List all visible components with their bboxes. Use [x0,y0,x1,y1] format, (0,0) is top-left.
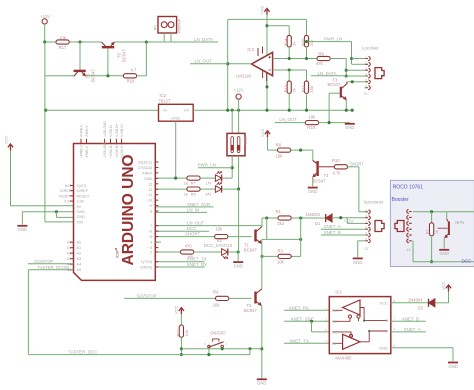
node junction (289.2,110.2) [288,109,291,112]
wire riser x=351.5 [351,42,353,65]
svg-text:BC547: BC547 [244,247,257,252]
node junction (227.7,63.8) [226,62,229,65]
ground GND (R16) [345,123,355,125]
svg-text:A4: A4 [77,263,82,267]
svg-text:XN: XN [205,192,211,197]
svg-text:VIN: VIN [77,220,84,224]
wire rail2 y=355.8 [28,354,250,356]
svg-text:A3: A3 [77,257,82,261]
svg-text:1k: 1k [435,230,439,234]
svg-text:2k: 2k [292,88,297,92]
svg-text:27(SDA): 27(SDA) [138,166,153,170]
svg-text:GND: GND [234,264,243,269]
wire GND row 2 [56,216,73,218]
svg-text:ON/OFF: ON/OFF [210,330,226,335]
svg-text:3: 3 [204,342,206,346]
wire row y=76 left of T5 [45,75,74,77]
node junction (107.9,75.8) [106,74,109,77]
svg-text:A2: A2 [77,252,82,256]
wire booster top rail [413,211,474,213]
resistor R18 4.7 [123,74,136,78]
wire LM311 output to pull-up [228,63,252,65]
node junction (352.2,81.8) [351,80,354,83]
wire riser R1-left to emitter row [266,218,268,239]
svg-text:+USB-D+: +USB-D+ [115,123,119,137]
ground GND (MAX485) [448,362,458,364]
wire XNET_SDE to RE [284,320,329,322]
wire +12V rail down to VIN [44,42,46,222]
svg-text:R18: R18 [127,79,135,84]
svg-text:5: 5 [394,344,396,348]
wire R10 to J2 pin1 riser [348,166,359,168]
wire T3 base [329,92,339,94]
wire T1 emitter row [262,238,301,240]
wire J1 pin1 [352,58,366,60]
svg-text:A1: A1 [77,246,82,250]
svg-text:IC1: IC1 [335,289,342,294]
wire J2 pin1 [359,211,366,213]
svg-text:~10: ~10 [146,199,152,203]
svg-text:~6: ~6 [148,230,152,234]
transistor T4 BC547 [313,161,317,164]
svg-text:XNET_RX: XNET_RX [187,262,207,267]
wire XNET_SVR [155,206,213,208]
MAX485 driver bubble [349,334,352,337]
resistor R12 10k [179,325,183,337]
svg-text:+PWR-V: +PWR-V [80,124,84,138]
wire J3 pin risers [412,241,414,262]
svg-text:BC547: BC547 [244,308,257,313]
svg-text:R12: R12 [175,328,180,336]
node junction MAX485 internal B [363,320,365,322]
svg-text:+USB-D+: +USB-D+ [115,144,119,158]
svg-text:R3: R3 [278,248,284,253]
svg-text:XNET_A: XNET_A [324,224,341,229]
svg-text:2: 2 [325,317,327,321]
node junction (175.7,178.1) [174,177,177,180]
svg-text:R5: R5 [191,192,197,197]
svg-text:3: 3 [325,328,327,332]
svg-text:SW1: SW1 [243,136,248,145]
wire J1 pin5 [352,81,365,83]
svg-text:10k: 10k [276,154,284,159]
MAX485 internal connections [333,308,388,344]
wire LED row 2 y=189.1 [155,188,187,190]
wire LN_OUT pin7 [155,225,262,227]
wire LED to GND riser [228,251,238,253]
svg-text:R17: R17 [59,45,67,50]
supply +12V (mid) [236,94,241,99]
resistor R2 10k [215,235,228,239]
svg-text:A: A [385,329,388,334]
wire LED2 to pole [222,188,239,190]
node junction (250,348.8) [248,347,251,350]
svg-text:XNET_B: XNET_B [324,230,341,235]
svg-text:J1: J1 [364,92,368,96]
svg-text:VCC: VCC [441,281,446,290]
resistor R15 20k [304,35,308,47]
wire R4 to T2 base [229,297,252,299]
svg-text:VCC: VCC [260,128,265,137]
svg-text:10k: 10k [277,260,285,265]
svg-text:1: 1 [226,342,228,346]
node junction (227.7,110.2) [226,109,229,112]
svg-text:ARDUINO UNO: ARDUINO UNO [120,154,137,265]
ground GND (T2) [257,378,267,380]
wire T3 emitter down [345,100,347,110]
node junction (238.6,189.1) [237,188,240,191]
svg-text:+12V: +12V [40,14,50,19]
svg-text:1N4004: 1N4004 [408,297,423,302]
wire VCC to R12 [180,314,182,325]
wire to R15 top [306,19,308,35]
wire booster bottom rail [413,261,474,263]
transistor T6 BC547 (in series on row y=42) [102,46,114,48]
wire riser to R11 [306,70,308,81]
svg-text:R11: R11 [301,85,306,93]
wire - input row y=70 [273,69,307,71]
svg-text:10k: 10k [213,303,221,308]
node junction (346.2,70.2) [345,69,348,72]
pin stubs LM311 bottom [262,71,264,79]
resistor R17 10k [56,40,69,44]
svg-text:13: 13 [148,182,152,186]
wire T6 base down [107,48,109,75]
wire +12V stub to rail [238,99,240,110]
svg-text:R2: R2 [426,230,430,234]
svg-text:-PWR-V: -PWR-V [85,125,89,138]
svg-text:GND: GND [308,189,317,194]
svg-text:XNET_A: XNET_A [404,327,421,332]
svg-text:D3: D3 [418,306,424,311]
wire XNET_A open [391,331,426,333]
wire R1 to D1 [291,217,326,219]
wire SW1 right pole down [238,156,240,189]
transistor T1 BC547 [254,230,256,242]
connector J3 (booster) [407,210,412,214]
svg-text:7812T: 7812T [159,99,171,104]
module ROCO 10761 Booster [390,180,474,266]
svg-text:DCC: DCC [187,226,197,231]
wire R3 row [262,255,278,257]
wire T2 emitter down [261,306,263,379]
module ARDUINO UNO [74,144,156,281]
node junction (232.2,167.7) [231,166,234,169]
svg-text:XNET_RX: XNET_RX [289,305,309,310]
wire top loop y=19.4 [228,18,307,20]
wire LN_IN [155,211,207,213]
supply VCC (R6) [265,131,270,138]
svg-text:+USB-V+: +USB-V+ [120,144,124,158]
svg-text:J3: J3 [406,248,410,252]
jack J3 body [395,221,404,232]
wire LED1 to pole [222,177,232,179]
LED DCC_STATUS [222,249,228,256]
svg-text:Xpressnet: Xpressnet [364,199,385,204]
resistor R9 47k [317,56,330,60]
svg-text:GND: GND [171,116,180,121]
svg-text:4.7: 4.7 [131,67,137,72]
wire R7 to LED1 [200,177,215,179]
supply +12V (top left) [42,19,47,24]
resistor R4 10k [216,296,229,300]
node junction (238.2,252) [237,250,240,253]
wire T1 collector riser [261,218,263,227]
node junction (181.4,354.6) [180,353,183,356]
svg-text:-USB-GND: -USB-GND [103,141,107,158]
svg-text:-USB-GND: -USB-GND [103,121,107,138]
wire riser J2 pin3 [346,218,348,224]
wire switch pin3 down [208,348,210,355]
svg-text:VCC: VCC [260,5,265,14]
wire T4 base to R10 [319,166,335,168]
pin stubs LM311 top [257,48,259,56]
node junction (261.8,348.8) [260,347,263,350]
svg-text:~5: ~5 [148,235,152,239]
comparator IC3 LM311N [252,52,273,75]
svg-text:R1: R1 [276,209,282,214]
svg-text:47k: 47k [316,61,324,66]
wire R1 row y=218 [262,217,278,219]
wire row y=76 T5 emitter to R18 [86,75,124,77]
svg-text:GND: GND [77,210,86,214]
svg-text:GND: GND [345,125,354,130]
svg-text:8: 8 [394,299,396,303]
svg-text:AREF: AREF [142,171,153,175]
svg-text:ICSP: ICSP [116,249,120,258]
wire row y=42 continues to JP1 [115,41,219,43]
svg-text:IOREF: IOREF [77,189,89,193]
wire riser to T4 collector [312,150,314,160]
node junction (56.4,211.8) [55,210,58,213]
svg-text:RO: RO [332,308,338,313]
svg-text:+12V: +12V [234,88,244,93]
node junction (208.9,354.6) [207,353,210,356]
wire R13 bottom to rail [288,93,290,110]
svg-text:PWRUP: PWRUP [178,18,182,33]
svg-text:XNET_SVR: XNET_SVR [187,202,210,207]
svg-text:+PWR-V: +PWR-V [80,144,84,158]
ground GND (J2) [353,257,363,259]
svg-text:B: B [385,318,388,323]
svg-text:2: 2 [150,251,152,255]
svg-text:XNET_B: XNET_B [402,316,419,321]
supply VCC (left) [8,144,13,151]
wire riser x=146.4 to R18 [145,42,147,76]
node junction (289.2,58.5) [288,57,291,60]
node junction (238.6,110.2) [237,109,240,112]
resistor R2 (booster) [430,223,434,236]
transistor T5 BC547 [79,42,81,70]
wire NPN emitter to ground [443,238,445,248]
svg-text:PWR_LN: PWR_LN [324,37,342,42]
svg-text:3.3V: 3.3V [77,200,85,204]
ground GND (T4) [308,187,318,189]
wire JP1 pin 2 [170,33,172,42]
svg-text:BC547: BC547 [122,49,127,62]
svg-text:R15: R15 [301,38,306,46]
svg-text:GND: GND [448,364,457,369]
node junction (311.5,321.3) [310,320,313,323]
wire to IC2 VI [46,109,159,111]
wire JP1 pin 1 [163,33,165,42]
wire R2b top riser [431,212,433,223]
svg-text:10k: 10k [59,35,67,40]
wire TASTER_DCOM [28,269,73,271]
node junction (300.7,218) [299,216,302,219]
ground GND (status LED) [233,261,243,263]
svg-text:VCC: VCC [174,305,179,314]
wire VCC riser x=267 [266,15,268,110]
wire GO/STOP row [124,297,216,299]
svg-text:GND: GND [257,381,266,386]
wire J2 pin6 to ground [358,240,366,242]
node junction (329.1,122.6) [328,121,331,124]
svg-text:J2: J2 [364,247,368,251]
svg-text:DI: DI [332,341,336,346]
wire XNET_TX to DI [284,342,329,344]
wire riser to R13 [288,70,290,81]
node junction (267,25.7) [265,24,268,27]
svg-text:R6: R6 [276,143,282,148]
svg-text:4: 4 [325,339,327,343]
wire XNET_TX pin1 [155,261,204,263]
svg-text:LN_OUT: LN_OUT [195,59,213,64]
svg-text:RESET: RESET [77,194,90,198]
supply VCC (MAX485) [446,285,451,292]
svg-text:10k: 10k [184,330,189,336]
svg-text:LocoNet: LocoNet [362,45,379,50]
svg-text:BC547: BC547 [91,69,96,82]
wire IC2 GND down [175,121,177,178]
svg-text:GND: GND [144,177,153,181]
supply VCC (comparator area) [264,8,269,15]
node junction MAX485 internal A [368,330,370,332]
svg-text:TASTER_DCOM: TASTER_DCOM [38,265,70,270]
svg-text:8: 8 [150,210,152,214]
svg-text:LN_OUT: LN_OUT [279,117,297,122]
svg-text:GO/STOP: GO/STOP [137,294,157,299]
svg-text:DCC_STATUS: DCC_STATUS [204,243,233,248]
wire LN_DATA to J1 [311,75,346,77]
svg-text:DCC: DCC [462,259,473,264]
wire riser to ground [238,189,240,252]
svg-text:1k: 1k [184,181,188,186]
resistor R3 10k [278,254,291,258]
svg-text:1k: 1k [184,192,188,197]
svg-text:-PWR-V: -PWR-V [85,145,89,158]
wire GND row 1 [22,211,73,213]
wire R2 to T1 base [228,236,252,238]
svg-text:~11: ~11 [146,193,152,197]
svg-text:R13: R13 [283,84,288,92]
svg-text:470: 470 [185,243,193,248]
switch SW1 (DIP) [227,133,245,155]
arduino top pin stubs [80,139,82,144]
resistor R14 1k [287,35,291,47]
svg-text:LN_DATA: LN_DATA [318,71,337,76]
svg-text:GO/STOP: GO/STOP [34,259,53,264]
node junction (300.7,239.4) [299,238,302,241]
wire switch pin1 down [221,348,223,349]
svg-text:R7: R7 [191,181,197,186]
svg-text:+12V: +12V [343,219,353,224]
node junction (267,86.9) [265,85,268,88]
wire R2b bottom riser [431,236,433,262]
wire SHORT row to R2 [155,236,214,238]
svg-text:BC547: BC547 [328,82,341,87]
wire D3 to VCC arrow [435,302,449,304]
svg-text:BC547: BC547 [313,178,326,183]
svg-text:TASTER_DCC: TASTER_DCC [68,350,97,355]
wire T3 collector to pin5 row [347,81,352,83]
ground GND (booster) [439,249,449,251]
wire R12 to rails [180,337,182,354]
wire R16 to ground [319,122,350,124]
resistor R1 2k2 [278,216,291,220]
wire DCC [155,230,209,232]
wire LN_OUT to R16 [275,122,306,124]
wire R11 bottom to rail [306,93,308,110]
wire D1 to J2 pin2 [332,217,365,219]
svg-text:1: 1 [325,306,327,310]
node junction (346.3,110.2) [345,109,348,112]
node junction (289.2,70) [288,68,291,71]
svg-text:20k: 20k [309,40,314,46]
wire pin4 stub [155,241,161,243]
svg-text:12: 12 [148,188,152,192]
node junction (232.2,110.2) [231,109,234,112]
svg-text:GND: GND [353,260,362,265]
transistor T3 BC547 [340,87,342,98]
svg-text:2(VC): 2(VC) [77,184,88,188]
wire TASTER riser down [27,270,29,355]
wire XNET_B to J2 pin5 [321,234,365,236]
wire riser to DE [311,321,313,332]
node junction (431.6,211.7) [430,210,433,213]
svg-text:10k: 10k [216,227,224,232]
wire T4 emitter to ground [312,177,314,186]
jack J2 body [375,221,384,232]
wire GO/STOP to A-pin [28,263,74,265]
resistor R13 2k [287,81,291,93]
wire J1 pin2 [352,63,366,65]
wire LM311 balance pins to VCC riser [266,81,268,87]
wire IC2 VO to VCC riser [193,109,352,111]
wire XNET_RX to RO [284,309,329,311]
svg-text:D1: D1 [315,221,321,226]
svg-text:10k: 10k [309,114,317,119]
svg-text:RE: RE [332,319,338,324]
svg-text:7: 7 [394,317,396,321]
node junction (431.6,261.7) [430,260,433,263]
resistor R5 1k [187,187,200,191]
svg-text:0(RX0): 0(RX0) [140,266,153,270]
node junction (306.5,41.6) [305,40,308,43]
svg-text:VCC: VCC [4,135,9,144]
svg-text:+USB-D-: +USB-D- [109,124,113,137]
svg-text:~9: ~9 [148,204,152,208]
wire NPN base [438,227,448,229]
wire down to ground symbol [21,212,23,225]
svg-text:MAX485: MAX485 [335,355,352,360]
wire SW1 left pole down (PWR_LN) [231,156,233,178]
svg-text:15k: 15k [309,86,314,92]
svg-text:1N4004: 1N4004 [305,212,320,217]
svg-text:R16: R16 [307,125,315,130]
wire to R14 top [267,25,289,27]
supply VCC (R12) [179,308,184,315]
